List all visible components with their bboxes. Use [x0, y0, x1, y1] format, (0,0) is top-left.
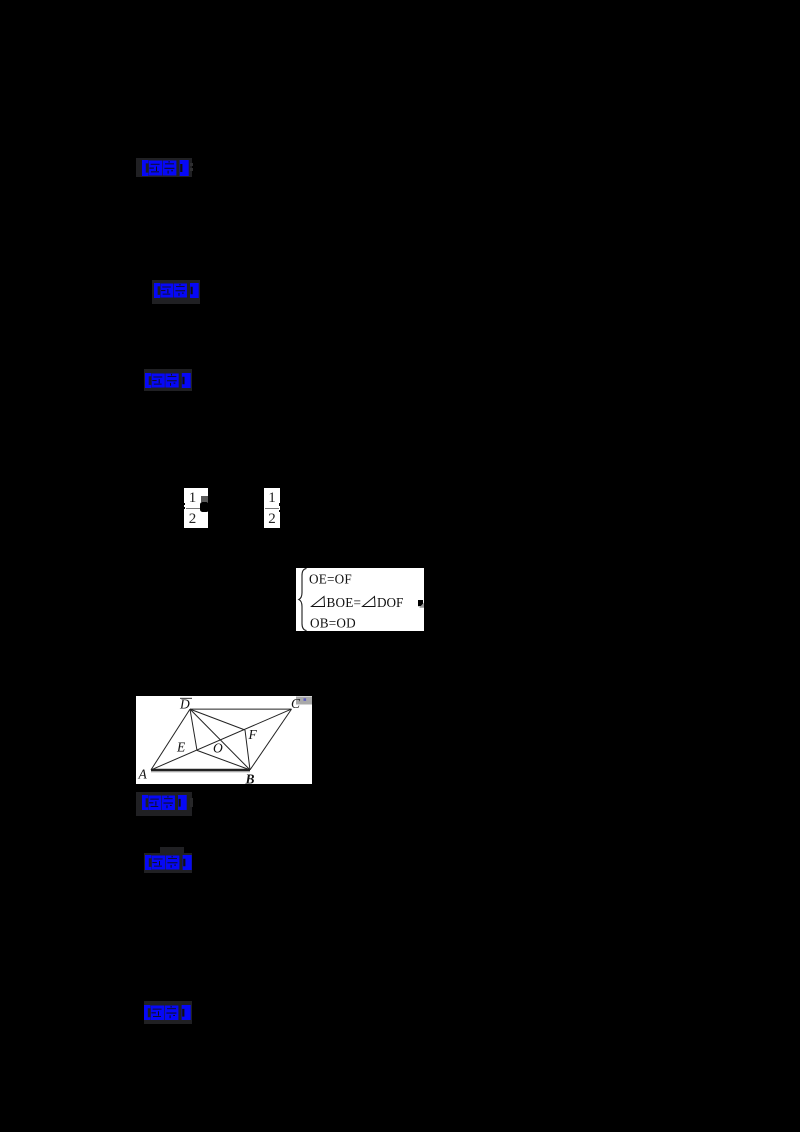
geometry figure image (parallelogram ABCD): [136, 696, 312, 785]
faint mark after label 4: [190, 798, 193, 807]
svg-text:D: D: [179, 696, 190, 711]
highlight box 3: [144, 369, 192, 391]
fraction image 2 (1/2): [264, 488, 280, 528]
colon ticks right edge of fraction 2: [279, 503, 280, 507]
svg-text:OB=OD: OB=OD: [310, 615, 356, 630]
colon ticks left edge of fraction 1: [183, 503, 185, 505]
black blob artifact: [200, 502, 209, 512]
gray square artifact: [201, 496, 208, 502]
highlight box 6: [144, 1001, 193, 1025]
segment DE: [190, 709, 197, 750]
svg-text:F: F: [248, 727, 258, 742]
brace: [299, 569, 307, 631]
segment EB: [197, 750, 250, 770]
vertex labels: [138, 696, 302, 787]
side CD: [190, 708, 292, 710]
segment BF: [245, 730, 250, 770]
fraction image 1 (1/2 with artifacts): [184, 488, 208, 528]
svg-text:DOF: DOF: [377, 595, 403, 610]
blue label 5 kaodian: [145, 855, 192, 870]
comma artifact right edge: [418, 600, 423, 606]
blue label 4 dianping: [142, 795, 187, 811]
bar over D: [180, 697, 192, 698]
highlight box 5 bump: [160, 847, 184, 853]
side BC: [250, 709, 292, 770]
highlight box 2: [152, 280, 200, 304]
svg-text:E: E: [176, 739, 186, 754]
svg-text:OE=OF: OE=OF: [309, 572, 352, 587]
line 2: angle BOE = angle DOF: [312, 597, 326, 607]
diagonal DB: [190, 709, 250, 770]
blue label 3 jieda: [145, 373, 191, 388]
gray colon mark after label 1: [190, 163, 193, 166]
side DA: [151, 709, 190, 770]
diagonal AC: [151, 709, 292, 770]
svg-text:=: =: [354, 595, 361, 610]
svg-text:B: B: [245, 771, 255, 785]
blue label 2 fenxi: [154, 283, 199, 298]
equation system image: [296, 568, 424, 631]
blue label 6 jieda: [144, 1005, 191, 1021]
gray block artifact top-right: [296, 696, 312, 704]
highlight box 5: [144, 853, 192, 873]
svg-text:O: O: [213, 740, 223, 755]
svg-text:BOE: BOE: [327, 595, 354, 610]
segment FD: [190, 709, 245, 730]
blue label 1 kaodian: [142, 160, 189, 176]
highlight box 1: [136, 158, 192, 177]
svg-text:A: A: [138, 766, 148, 781]
svg-text:C: C: [291, 696, 301, 711]
highlight box 4: [136, 792, 192, 816]
blue speck in gray block: [304, 698, 307, 701]
side AB (thick with shadow): [151, 768, 250, 770]
